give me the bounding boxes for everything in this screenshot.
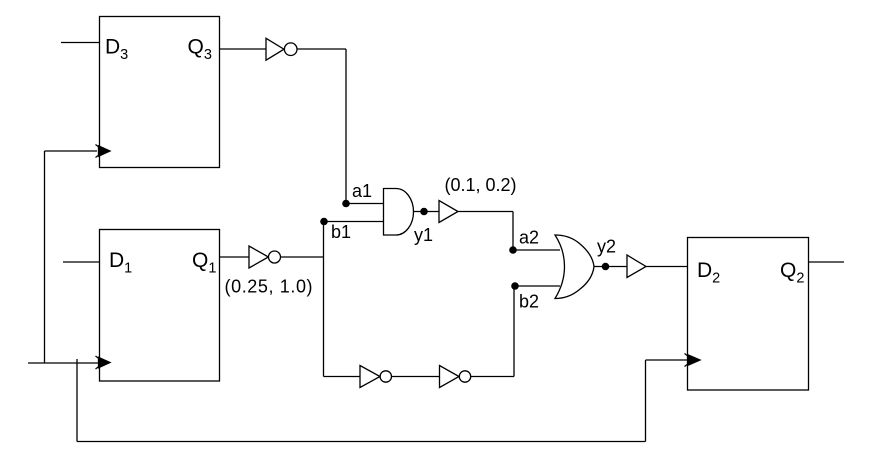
OR gate U5 xyxy=(555,235,594,299)
wire bottom inverter B out xyxy=(471,376,514,378)
node y2 xyxy=(602,263,610,271)
wire vertical drop to a2 xyxy=(512,212,514,251)
svg-text:(0.25, 1.0): (0.25, 1.0) xyxy=(225,277,314,297)
svg-text:y2: y2 xyxy=(597,237,616,257)
wire Q3 output to inverter xyxy=(220,48,266,50)
svg-text:a1: a1 xyxy=(352,181,372,201)
wire clock trunk vertical xyxy=(44,151,46,363)
clock mark D2 xyxy=(685,354,694,367)
inverter U9 bottom A xyxy=(360,366,380,388)
wire y2 buffer output to D2 xyxy=(646,266,688,268)
wire clock stub left xyxy=(28,362,98,364)
clock mark D1 xyxy=(96,356,105,369)
wire a1 stub into AND xyxy=(346,203,384,205)
wire Q1 output to inverter xyxy=(220,256,250,258)
wire b1 stub into AND xyxy=(324,221,384,223)
wire between bottom inverters xyxy=(392,376,440,378)
buffer U11 y2 xyxy=(627,255,646,278)
node a2 xyxy=(509,246,517,254)
flip-flop U1 box xyxy=(100,230,220,382)
wire Q2 output stub xyxy=(809,261,845,263)
node b2 xyxy=(511,282,519,290)
svg-text:(0.1, 0.2): (0.1, 0.2) xyxy=(445,175,517,195)
wire clock to D3 xyxy=(45,150,98,152)
wire D1 input stub xyxy=(63,261,100,263)
wire clock into D2 xyxy=(646,359,689,361)
wire bottom to inverter A xyxy=(324,376,361,378)
wire a2 stub into OR xyxy=(513,249,560,251)
inverter U10 bottom B xyxy=(440,366,460,388)
wire vertical drop to a1 xyxy=(345,49,347,204)
flip-flop U2 box xyxy=(688,238,809,391)
node b1 xyxy=(320,218,328,226)
wire b1 vertical xyxy=(323,222,325,377)
inverter U7 after Q1 xyxy=(249,246,268,268)
wire clock riser to D2 xyxy=(645,360,647,442)
flip-flop U3 box xyxy=(100,17,220,168)
wire b2 vertical xyxy=(513,286,515,377)
svg-text:y1: y1 xyxy=(414,225,433,245)
wire inverter out to corner xyxy=(297,48,346,50)
wire D3 input stub xyxy=(61,42,100,44)
svg-text:b1: b1 xyxy=(331,222,351,242)
wire inverter out to b1 vertical xyxy=(281,256,324,258)
wire clock drop xyxy=(76,359,78,442)
inverter U6 after Q3 xyxy=(266,38,284,60)
AND gate U4 xyxy=(384,189,414,236)
svg-text:b2: b2 xyxy=(519,292,539,312)
wire y1 buffer output xyxy=(458,211,513,213)
wire b2 stub into OR xyxy=(515,285,560,287)
svg-text:a2: a2 xyxy=(519,228,539,248)
wire clock bottom run xyxy=(77,441,646,443)
clock mark D3 xyxy=(96,145,105,158)
node y1 xyxy=(420,208,428,216)
wire AND output xyxy=(414,211,439,213)
buffer U8 y1 xyxy=(439,201,458,223)
wire OR output xyxy=(594,266,627,268)
node a1 xyxy=(342,200,350,208)
